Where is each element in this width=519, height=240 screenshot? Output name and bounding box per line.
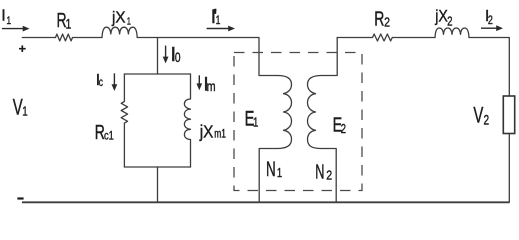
- svg-text:1: 1: [277, 167, 282, 181]
- svg-text:1: 1: [22, 106, 27, 120]
- svg-text:jX: jX: [111, 9, 126, 26]
- svg-text:c1: c1: [104, 130, 114, 143]
- svg-text:2: 2: [484, 112, 490, 128]
- svg-text:I: I: [1, 8, 5, 25]
- svg-text:1: 1: [127, 15, 131, 26]
- svg-text:2: 2: [447, 15, 452, 29]
- svg-text:1: 1: [253, 116, 258, 130]
- svg-text:1: 1: [6, 15, 11, 27]
- svg-text:V: V: [473, 103, 483, 128]
- svg-text:m1: m1: [214, 128, 226, 141]
- svg-text:1: 1: [216, 15, 221, 27]
- svg-text:jX: jX: [434, 7, 448, 25]
- svg-text:m: m: [207, 79, 216, 94]
- svg-text:N: N: [315, 160, 324, 183]
- svg-text:2: 2: [326, 169, 332, 183]
- svg-text:jX: jX: [199, 123, 214, 142]
- svg-text:2: 2: [341, 123, 346, 137]
- svg-text:2: 2: [488, 14, 493, 28]
- svg-text:1: 1: [66, 16, 72, 32]
- svg-text:R: R: [374, 7, 384, 30]
- svg-text:N: N: [266, 157, 276, 181]
- svg-text:2: 2: [384, 15, 390, 30]
- svg-text:0: 0: [175, 49, 181, 65]
- svg-text:c: c: [99, 77, 103, 90]
